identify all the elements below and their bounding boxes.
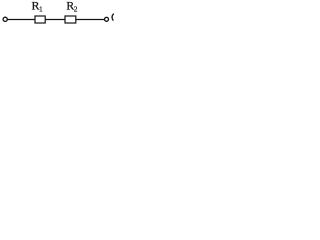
resistor R2 (box) (65, 16, 76, 23)
terminal T1 (left open circle) (3, 17, 7, 21)
resistor R1 (box) (35, 16, 45, 23)
cropped mark at right image edge (112, 14, 114, 21)
wire: left terminal to R1 (8, 19, 36, 21)
svg-text:2: 2 (74, 5, 78, 14)
svg-text:1: 1 (39, 5, 43, 14)
wire: R2 to right terminal (76, 19, 105, 21)
terminal T2 (right open circle) (105, 17, 109, 21)
wire: R1 to R2 (45, 19, 65, 21)
